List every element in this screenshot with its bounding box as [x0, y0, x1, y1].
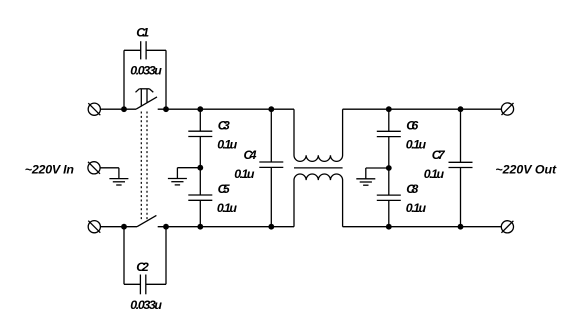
svg-text:~220V Out: ~220V Out	[495, 162, 557, 176]
svg-text:0.1u: 0.1u	[217, 138, 237, 152]
svg-text:0.033u: 0.033u	[130, 64, 162, 78]
svg-text:C7: C7	[432, 148, 446, 162]
svg-text:C5: C5	[218, 182, 231, 196]
svg-text:C2: C2	[136, 260, 149, 274]
svg-text:C1: C1	[136, 26, 149, 40]
svg-text:~220V In: ~220V In	[25, 162, 75, 176]
svg-text:0.1u: 0.1u	[406, 138, 427, 152]
svg-text:0.033u: 0.033u	[130, 298, 162, 312]
svg-text:C8: C8	[406, 182, 418, 196]
svg-text:C4: C4	[244, 148, 257, 162]
svg-text:C3: C3	[218, 118, 230, 132]
svg-text:0.1u: 0.1u	[424, 167, 445, 181]
svg-text:0.1u: 0.1u	[217, 201, 237, 215]
svg-text:0.1u: 0.1u	[406, 201, 427, 215]
svg-text:0.1u: 0.1u	[234, 167, 255, 181]
svg-text:C6: C6	[406, 118, 418, 132]
